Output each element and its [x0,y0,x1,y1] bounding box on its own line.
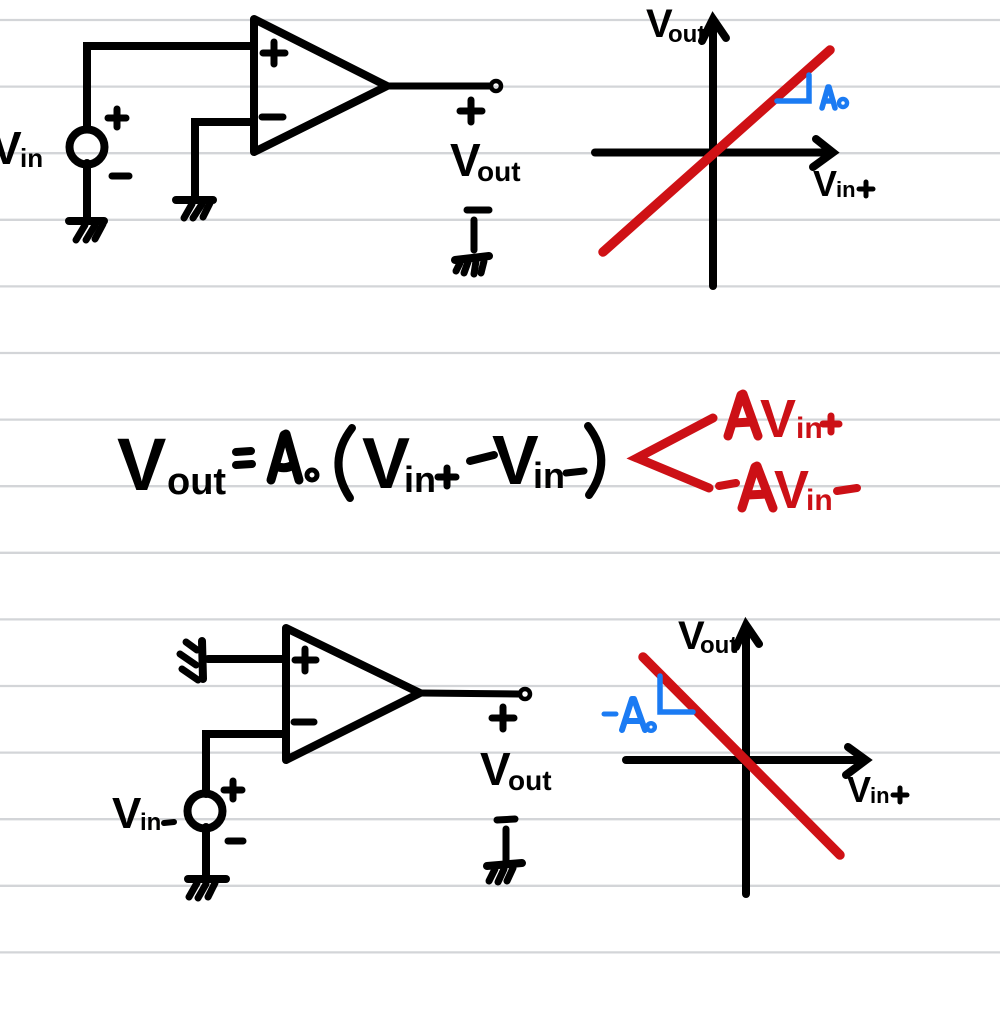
slope mark Ao [777,75,809,101]
svg-text:V: V [480,743,511,795]
svg-text:V: V [0,122,22,174]
term -AVin- [719,483,736,486]
pin + of U1 [263,42,285,64]
label + of V1 [108,109,126,127]
svg-text:in: in [796,412,823,445]
node Vin label [0,122,43,174]
equation Vout = Ao(Vin+ - Vin-) [117,423,226,506]
node Vin- label [112,789,161,838]
pin - of U1 [262,114,283,121]
source V2 [188,794,223,829]
ground [487,863,522,882]
svg-text:in: in [806,484,833,517]
transfer line slope -Ao [643,657,840,855]
ground [69,221,104,240]
svg-text:V: V [813,163,837,204]
svg-text:V: V [774,460,809,520]
node Vout label [450,134,521,187]
gain Ao [271,434,317,480]
axis label Vout [678,614,737,659]
wire [208,655,286,663]
op-amp U1 [254,19,387,152]
ground [176,200,213,218]
op-amp U2 [286,628,420,760]
y-axis Vout [702,19,726,286]
label - of Vout [467,207,489,214]
ground (rotated) [180,641,203,680]
axis label Vout [646,2,705,48]
node Vout2 label [480,743,552,796]
svg-text:out: out [700,632,737,659]
node output terminal [520,689,530,699]
label + of Vout [460,100,482,122]
node output terminal [491,81,501,91]
open paren [338,428,352,498]
label + of V2 [224,781,242,799]
ground [455,256,489,274]
svg-text:in: in [870,783,890,808]
term Vin+ [362,424,436,504]
term Vin- [492,421,565,499]
axis label Vin+ [847,769,890,810]
svg-text:V: V [760,389,796,449]
minus operator [470,455,494,461]
label + of Vout2 [492,707,514,729]
label -Ao [604,712,616,717]
svg-text:V: V [492,421,539,499]
term AVin+ [728,389,823,449]
wire [87,46,252,129]
svg-text:in: in [836,177,856,202]
label - of Vout2 [497,819,515,820]
ground [188,879,226,898]
pin - of U2 [294,719,314,726]
close paren [588,426,601,495]
svg-text:V: V [112,789,142,838]
x-axis Vin+ [595,139,833,167]
pin + of U2 [295,649,316,671]
svg-text:in: in [404,459,436,500]
brace [637,418,713,488]
svg-text:V: V [362,424,410,504]
svg-text:V: V [117,423,166,506]
svg-text:in: in [20,143,43,173]
wire [195,122,254,197]
svg-text:out: out [508,765,552,796]
transfer line slope Ao [603,50,830,252]
equals sign [236,451,252,465]
wire [206,734,286,794]
slope mark -Ao [660,676,693,712]
label - of V2 [228,838,243,845]
svg-text:in: in [140,809,161,836]
y-axis Vout [736,625,759,894]
svg-text:in: in [533,455,565,496]
source V1 [70,130,105,165]
wire [420,693,518,694]
svg-text:out: out [668,21,705,48]
wire [202,827,210,877]
svg-text:out: out [477,156,521,187]
svg-text:V: V [847,769,871,810]
wire [387,83,489,90]
wire [471,220,478,250]
label Ao [822,87,847,108]
x-axis Vin+ [626,747,866,775]
axis label Vin+ [813,163,856,204]
svg-text:out: out [167,461,226,503]
wire [503,829,510,861]
label - of V1 [112,173,129,180]
wire [83,163,91,219]
